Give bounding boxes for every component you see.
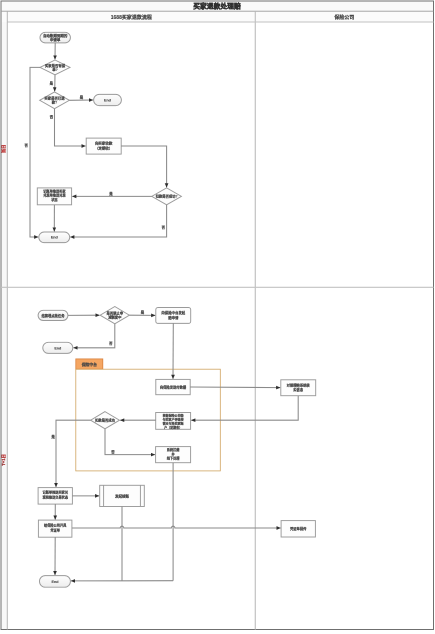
svg-text:扣款是否成功?: 扣款是否成功? xyxy=(155,194,178,199)
wire join left into End E4 xyxy=(71,580,173,582)
svg-text:是: 是 xyxy=(79,95,84,100)
svg-text:向保险发送付数据: 向保险发送付数据 xyxy=(160,384,187,389)
svg-text:否: 否 xyxy=(108,341,113,346)
wire D1 left down to End1 xyxy=(30,67,40,237)
process P10 xyxy=(38,520,72,537)
svg-text:1688买家退款流程: 1688买家退款流程 xyxy=(111,14,152,21)
process P2 xyxy=(37,188,71,205)
wire P5 down left to P6 xyxy=(191,396,298,421)
process P11 (insurance lane) xyxy=(281,521,315,537)
svg-text:End: End xyxy=(104,98,112,102)
wire P10 down to End E4 xyxy=(54,537,56,575)
process P7 xyxy=(156,447,191,463)
svg-text:向保险中台发起: 向保险中台发起 xyxy=(161,310,185,315)
wire D4 down left to End E3 xyxy=(74,324,115,348)
wire D3 bottom down left to E2 xyxy=(70,205,166,237)
header band fill xyxy=(2,11,434,22)
svg-text:结算埋点批任务: 结算埋点批任务 xyxy=(41,313,65,318)
wire P2 down to End E2 xyxy=(53,205,55,232)
wire P1 right down to D3 xyxy=(121,146,166,187)
predefined process P9 xyxy=(100,485,145,506)
svg-text:凭证单回传: 凭证单回传 xyxy=(289,526,307,531)
wire D4 to P3 xyxy=(129,314,155,316)
container tag (orange) xyxy=(76,359,103,369)
process P3 (rounded) xyxy=(156,308,191,324)
svg-text:发起拨账: 发起拨账 xyxy=(114,493,129,498)
title band bottom line xyxy=(1,10,434,12)
svg-text:End: End xyxy=(51,236,59,240)
svg-text:线下处理: 线下处理 xyxy=(167,456,181,461)
process P5 (insurance lane) xyxy=(281,380,316,396)
svg-text:End: End xyxy=(54,346,62,350)
end pill E2 xyxy=(39,232,70,243)
row divider xyxy=(1,286,434,288)
end pill E4 xyxy=(40,576,71,588)
wire S2 to D4 xyxy=(68,314,100,316)
decision D3 xyxy=(152,188,182,205)
start pill S1 xyxy=(40,32,70,43)
wire D5 down right to P7 xyxy=(105,429,155,455)
svg-text:申请单: 申请单 xyxy=(50,37,61,42)
svg-text:保险公司: 保险公司 xyxy=(333,14,354,21)
process P8 xyxy=(38,488,72,505)
svg-text:款?: 款? xyxy=(51,100,57,105)
svg-text:保险中台: 保险中台 xyxy=(81,362,97,367)
svg-text:否: 否 xyxy=(110,449,115,454)
svg-text:户（定期收）: 户（定期收） xyxy=(163,425,182,430)
svg-text:扣款是否成功: 扣款是否成功 xyxy=(94,417,115,422)
wire D1 to D2 xyxy=(54,75,56,91)
wire P3 down to P4 xyxy=(172,323,174,378)
end pill E1 xyxy=(94,94,122,105)
decision D2 xyxy=(40,92,70,109)
wire D5 left down to P8 xyxy=(56,420,91,487)
process P1 xyxy=(86,138,121,154)
svg-text:现和推送交易状态: 现和推送交易状态 xyxy=(43,494,69,499)
lane divider xyxy=(254,11,256,629)
svg-text:否: 否 xyxy=(161,225,166,230)
svg-text:是: 是 xyxy=(108,191,113,196)
wire D3 left to P2 xyxy=(72,195,151,197)
wire P4 right to P5 xyxy=(190,386,280,389)
wire D2 to End pill E1 xyxy=(69,99,93,101)
wire P9 down to join xyxy=(121,507,123,581)
label column fill xyxy=(2,22,8,629)
svg-text:减额度中: 减额度中 xyxy=(107,315,122,320)
svg-text:买家退款处理赔: 买家退款处理赔 xyxy=(193,2,241,11)
svg-text:向买家收款: 向买家收款 xyxy=(95,140,113,145)
start pill S2 xyxy=(38,310,68,320)
svg-text:记账单推送买家兑: 记账单推送买家兑 xyxy=(43,490,69,495)
svg-text:T+1日: T+1日 xyxy=(0,454,7,466)
title band fill xyxy=(2,2,434,12)
wire P10 right with hops to P11 xyxy=(72,526,281,528)
svg-text:状态: 状态 xyxy=(51,197,58,202)
svg-text:End: End xyxy=(52,580,60,584)
svg-text:当日: 当日 xyxy=(0,145,7,153)
header band bottom line xyxy=(7,21,433,23)
svg-text:赔申请: 赔申请 xyxy=(167,315,179,320)
orange group container xyxy=(76,369,221,471)
svg-text:给保险公司开具: 给保险公司开具 xyxy=(44,523,67,528)
process P6 (tall) xyxy=(156,413,191,430)
end pill E3 xyxy=(43,342,73,353)
decision D1 xyxy=(40,60,70,75)
label column divider xyxy=(6,11,8,629)
wire pill to D1 xyxy=(54,43,56,59)
process P4 xyxy=(156,379,190,394)
svg-text:单?: 单? xyxy=(52,67,57,72)
svg-text:实信息: 实信息 xyxy=(293,387,304,392)
svg-text:是: 是 xyxy=(140,309,145,314)
svg-text:否: 否 xyxy=(24,143,29,148)
wire P8 down to P10 xyxy=(54,504,56,519)
svg-text:是: 是 xyxy=(50,434,55,439)
wire D2 down right to P1 xyxy=(55,109,86,146)
wire P8 right to P9 xyxy=(72,495,99,497)
svg-text:对接理赔系统核: 对接理赔系统核 xyxy=(287,382,311,387)
svg-text:凭证单: 凭证单 xyxy=(49,527,60,532)
decision D5 xyxy=(91,412,120,429)
decision D4 xyxy=(100,307,129,324)
svg-text:（定期收）: （定期收） xyxy=(95,145,113,150)
svg-text:否: 否 xyxy=(49,114,54,119)
wire P7 down to join xyxy=(172,463,174,581)
wire P6 left to D5 xyxy=(120,419,155,421)
svg-text:是: 是 xyxy=(49,80,54,85)
